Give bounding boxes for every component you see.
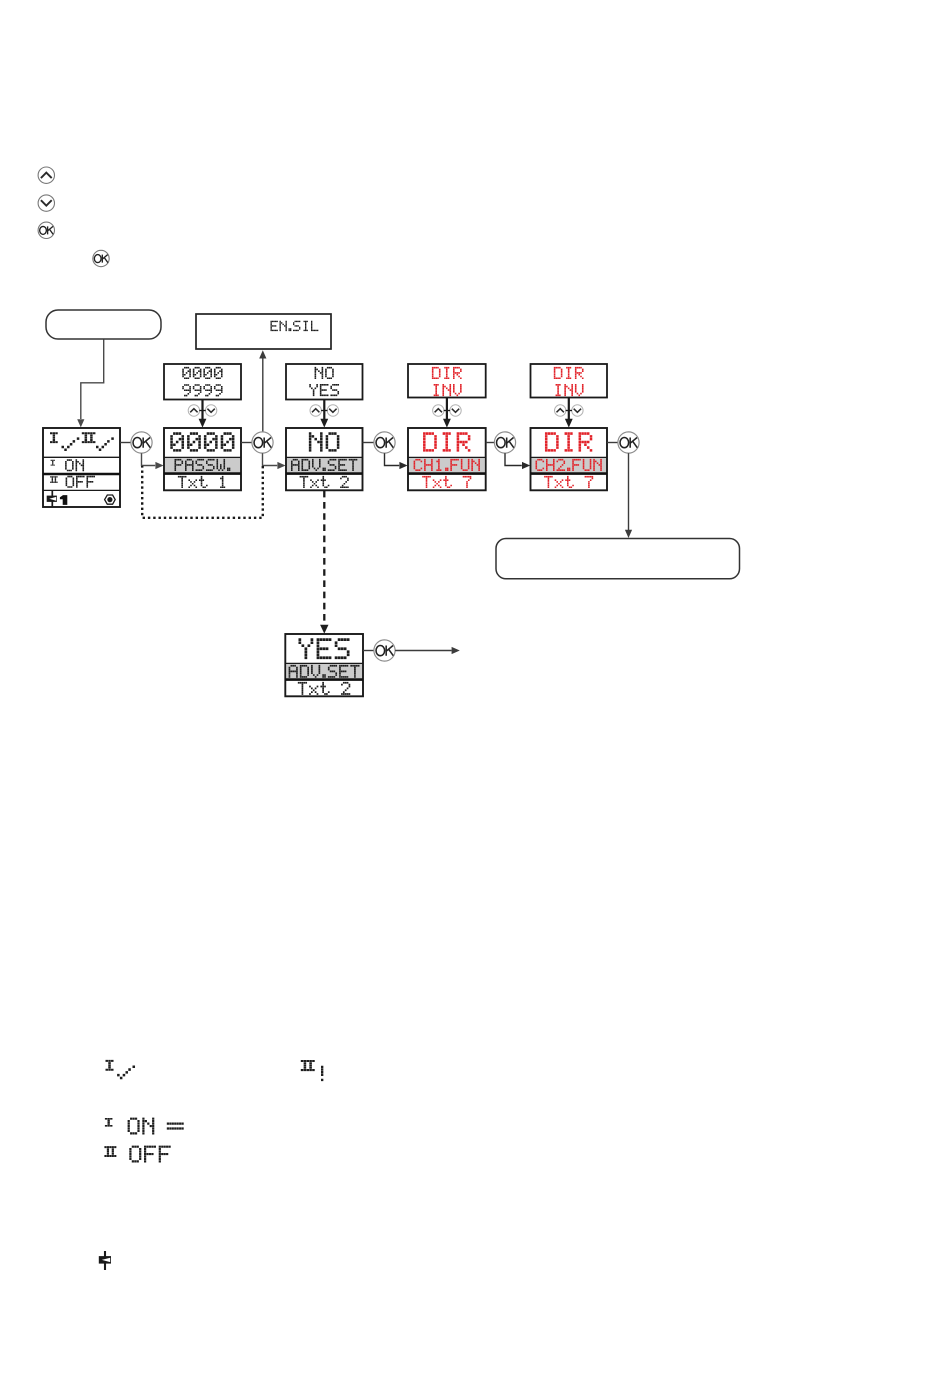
OK button 2 <box>252 432 273 453</box>
legend II OFF <box>104 1146 116 1157</box>
display ADV.SET NO <box>286 428 363 490</box>
selector wire 4 <box>568 398 570 421</box>
legend II alarm <box>301 1060 315 1071</box>
wire D3 to OK4 <box>486 442 495 444</box>
option box DIR INV 2 <box>531 364 608 398</box>
display CH1.FUN <box>408 428 486 490</box>
button ok icon inline <box>93 250 109 266</box>
wire OK4 to CH2.FUN <box>505 453 522 465</box>
button down icon <box>38 195 54 211</box>
up down buttons 1 <box>188 405 199 416</box>
up down buttons 3 <box>433 405 444 416</box>
button up icon <box>38 167 54 183</box>
selector wire 2 <box>323 400 325 420</box>
display CH2.FUN <box>531 428 608 490</box>
end box <box>496 539 740 579</box>
legend I ON = <box>105 1118 113 1127</box>
option box DIR INV 1 <box>408 364 486 398</box>
settings nut icon <box>105 495 116 504</box>
wire D2 to OK3 <box>363 442 374 444</box>
display PASSW <box>164 428 241 490</box>
wire OK6 onward <box>395 650 451 652</box>
display ADV.SET YES <box>285 634 363 696</box>
up down buttons 2 <box>310 405 321 416</box>
OK button 3 <box>374 432 395 453</box>
up down buttons 4 <box>555 405 566 416</box>
wire status to OK1 <box>120 442 131 444</box>
dashed wire to YES display <box>323 491 325 625</box>
selector wire 1 <box>201 400 203 420</box>
legend relay icon <box>104 1251 106 1270</box>
relay output icon 1 <box>51 491 53 507</box>
range box 0000 9999 <box>164 364 241 400</box>
wire start to status <box>81 340 104 420</box>
dotted return wire <box>142 466 263 518</box>
selector wire 3 <box>446 398 448 421</box>
status display <box>43 428 120 507</box>
wire D5 to OK6 <box>363 650 374 652</box>
wire OK2 to EN.SIL <box>262 359 264 432</box>
OK button 6 <box>374 640 395 661</box>
start box <box>46 310 161 339</box>
button ok icon <box>38 222 54 238</box>
legend I check <box>106 1060 114 1071</box>
wire OK1 to PASSW <box>142 453 156 465</box>
wire D4 to OK5 <box>607 442 618 444</box>
EN.SIL box <box>196 314 331 349</box>
wire D1 to OK2 <box>241 442 252 444</box>
OK button 5 <box>618 432 639 453</box>
option box NO YES <box>286 364 363 400</box>
OK button 4 <box>494 432 515 453</box>
wire OK5 to end box <box>628 453 630 530</box>
wire OK3 to CH1.FUN <box>385 453 400 465</box>
wire OK2 to ADV.SET <box>263 453 278 465</box>
OK button 1 <box>131 432 152 453</box>
